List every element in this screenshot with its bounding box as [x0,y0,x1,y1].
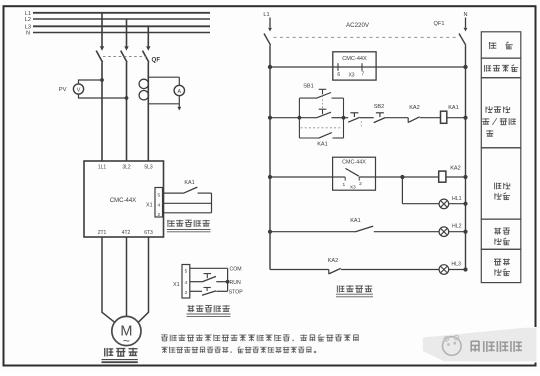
wire PV top lead [79,80,103,84]
svg-text:RUN: RUN [230,280,241,286]
svg-text:4: 4 [185,280,188,286]
wire KA1 contact to HL2 [374,231,439,233]
annotation box 1 (micro breaker) [481,32,521,58]
caption zhu-huilu (main circuit) [104,348,106,357]
current transformer TA loop 1 [139,79,148,88]
svg-text:L2: L2 [25,17,31,23]
wire ammeter to bottom [178,96,180,104]
svg-text:CMC-44X: CMC-44X [110,198,136,204]
wire rung3 from left rail [270,176,333,178]
fault relay contact blade [345,168,359,176]
junction rung2 left rail [268,116,272,120]
svg-text:KA1: KA1 [448,105,459,111]
dashed inner line of button box [301,127,343,129]
wire CT secondary top [148,76,179,78]
wire phase B drop to QF [126,19,128,46]
breaker QF pole 2 blade [121,51,127,63]
svg-text:L1: L1 [25,11,31,17]
svg-text:X1: X1 [173,282,180,288]
soft starter CMC-44X main box [84,161,164,237]
wire L1 entry arrow [269,18,271,28]
breaker QF pole 1 blade [96,51,102,63]
wire L3 phase bus [33,25,210,27]
terminal strip X1 (upper) [155,188,163,218]
wire right edge three-wire loop [227,268,229,291]
junction rung3 left rail [268,175,272,179]
svg-text:A: A [177,89,181,95]
voltmeter PV [73,84,83,94]
breaker QF pole 3 blade [143,51,149,63]
note text line 2 [161,346,167,348]
svg-text:SB1: SB1 [303,84,314,90]
svg-text:4T2: 4T2 [122,230,131,236]
starter control-power box CMC-44X [333,52,376,80]
junction rung2 right rail [463,116,467,120]
watermark band [423,328,537,362]
button box top edge segments [299,97,316,99]
svg-text:X1: X1 [146,202,153,208]
svg-text:5: 5 [185,269,188,275]
annotation box 5 (run indicator) [481,219,521,249]
svg-text:QF1: QF1 [434,21,445,27]
disconnect blade left [264,34,271,46]
annotation box 6 (stop indicator) [481,249,521,282]
wire box to junction [376,176,403,178]
wire phase C drop to QF [147,26,149,46]
breaker QF linkage (dashed) [103,56,146,58]
wire X1-2 out [164,212,212,214]
svg-text:HL1: HL1 [452,196,462,202]
breaker QF1 blade [459,34,466,46]
junction rung3 branch [400,175,404,179]
wire KA2 to coil KA1 [420,117,441,119]
holding contact KA1 (NO) on box bottom [299,137,318,139]
svg-text:5L3: 5L3 [144,164,153,170]
caption kongzhi-huilu (control circuit) [336,285,338,292]
wire out of terminal 2 [359,176,375,178]
wire N bus [33,32,210,34]
svg-text:HL3: HL3 [451,261,461,267]
dashed linkage SB1 [322,96,324,109]
wire HL2 to right rail [449,231,466,233]
wire CT secondary bottom [148,103,179,105]
watermark background patch [523,327,537,363]
wire L1 phase bus [33,12,210,14]
button box SB1 left edge [298,98,300,138]
terminal tick 1 [344,177,346,181]
stop button (NC) [190,290,202,292]
svg-text:KA1: KA1 [184,180,194,186]
wire KA1 to corner [198,192,212,194]
junction left bus [268,65,272,69]
wire RUN from X1-4 [190,281,202,283]
wire N entry arrow [465,18,467,28]
wire L2 phase bus [33,18,210,20]
svg-text:HL2: HL2 [452,224,462,230]
svg-text:1: 1 [342,182,345,188]
junction HL1 right rail [463,202,467,206]
svg-text:7: 7 [361,71,364,77]
wire CT secondary right drop [178,77,180,85]
wire COM [190,267,228,269]
wire control bus [270,66,466,68]
lamp HL2 (run) [439,227,449,237]
junction rung3 right rail [463,175,467,179]
middle contact of SB1 box [299,117,316,119]
svg-text:X3: X3 [350,184,356,190]
svg-text:L3: L3 [25,25,31,31]
wire right control rail [465,45,467,269]
wire phase A drop to QF [101,13,103,47]
wire phase C QF to starter [147,62,149,161]
svg-text:KA1: KA1 [317,141,328,147]
svg-text:L1: L1 [263,12,269,18]
wire rung4 from left rail [270,231,355,233]
junction SB1 box left [298,116,302,120]
lamp HL3 (stop) [439,265,449,275]
svg-text:6: 6 [337,72,340,78]
breaker linkage dashed [274,36,458,38]
wire junction to coil KA2 [402,176,438,178]
terminal strip X1 (lower) [182,265,190,299]
wire branch down to HL1 [401,177,403,204]
svg-text:CMC-44X: CMC-44X [342,56,367,62]
svg-text:6T3: 6T3 [144,230,153,236]
junction SB1 box right [342,116,346,120]
wire coil KA2 to right rail [446,176,466,178]
svg-text:V: V [77,87,81,93]
annotation box 2 (control power) [481,58,521,78]
watermark brand text ji-cheng-pei-xun [470,341,472,352]
wire 2T1 to motor [102,237,115,323]
wire rung2 from left rail [270,117,299,119]
terminal tick 2 [358,177,360,181]
motor M [112,316,141,345]
caption shuang-jiedian-kongzhi (two-contact control) [187,305,194,307]
svg-text:QF: QF [152,57,161,64]
dashed tail below stop button [360,121,362,127]
svg-text:CMC-44X: CMC-44X [342,159,366,165]
svg-text:5: 5 [157,192,160,198]
junction rung4 left rail [268,230,272,234]
svg-text:KA1: KA1 [350,218,361,224]
terminal tick 6 [337,63,339,71]
svg-text:AC220V: AC220V [346,22,370,29]
wire PV bottom lead [79,94,127,98]
svg-text:KA2: KA2 [450,166,461,172]
watermark logo circle [443,337,462,356]
wire 4T2 to motor [126,237,128,316]
button box SB1 right edge [343,98,345,138]
svg-text:2: 2 [185,290,188,296]
stop button (NC, unlabeled) [350,112,358,114]
wire between stop buttons [360,117,374,119]
junction RUN node [226,280,230,284]
svg-text:2: 2 [359,181,362,187]
svg-text:KA2: KA2 [328,258,339,264]
ammeter PA [174,85,184,95]
wire X1-4 out [164,202,212,204]
annotation box 4 (fault indicator) [481,148,521,219]
svg-text:4: 4 [157,203,160,209]
svg-text:1L1: 1L1 [98,164,107,170]
svg-text:STOP: STOP [229,289,244,295]
wire phase B QF to starter [126,62,128,161]
start button (NO) [204,273,212,275]
svg-text:SB2: SB2 [374,104,385,110]
note text line 1 [161,334,167,336]
wire phase A QF to starter [101,62,103,161]
svg-text:X3: X3 [348,73,354,79]
svg-text:2T1: 2T1 [98,230,107,236]
wire 6T3 to motor [138,237,149,323]
junction rung4 right rail [463,230,467,234]
caption dan-jiedian-kongzhi (single-contact control) [167,220,169,227]
wire SB2 to KA2 [386,117,409,119]
wire rung5 from left rail [270,269,329,271]
junction PV-phaseA [100,78,104,82]
wire right edge of dry-contact loop [211,193,213,213]
wire left control rail [269,45,271,269]
ground arrow of CT secondary [178,104,180,107]
svg-text:N: N [463,12,467,18]
junction rung5 right rail [463,267,467,271]
wire to stop buttons [344,117,349,119]
lamp HL1 (fault) [439,199,449,209]
svg-text:PV: PV [59,87,67,93]
annotation box 3 (soft start / start-stop control) [481,78,521,148]
svg-text:~: ~ [123,334,130,348]
svg-text:KA2: KA2 [409,105,420,111]
terminal tick 7 [361,63,363,71]
wire into terminal 1 [333,176,346,178]
svg-text:COM: COM [230,266,242,272]
wire HL3 to right rail [449,269,466,271]
junction right bus [463,65,467,69]
wire coil KA1 to right rail [447,117,466,119]
svg-text:2: 2 [157,212,160,218]
svg-text:N: N [26,31,30,37]
wire X1-5 out [164,192,184,194]
wire HL1 to right rail [449,203,466,205]
starter fault-output box CMC-44X [333,157,376,190]
junction PV-phaseB [125,96,129,100]
contact KA1 (dry contact) [184,187,198,193]
wire KA2 contact to HL3 [341,269,439,271]
svg-text:3L2: 3L2 [122,164,131,170]
current transformer TA loop 2 [139,91,148,100]
